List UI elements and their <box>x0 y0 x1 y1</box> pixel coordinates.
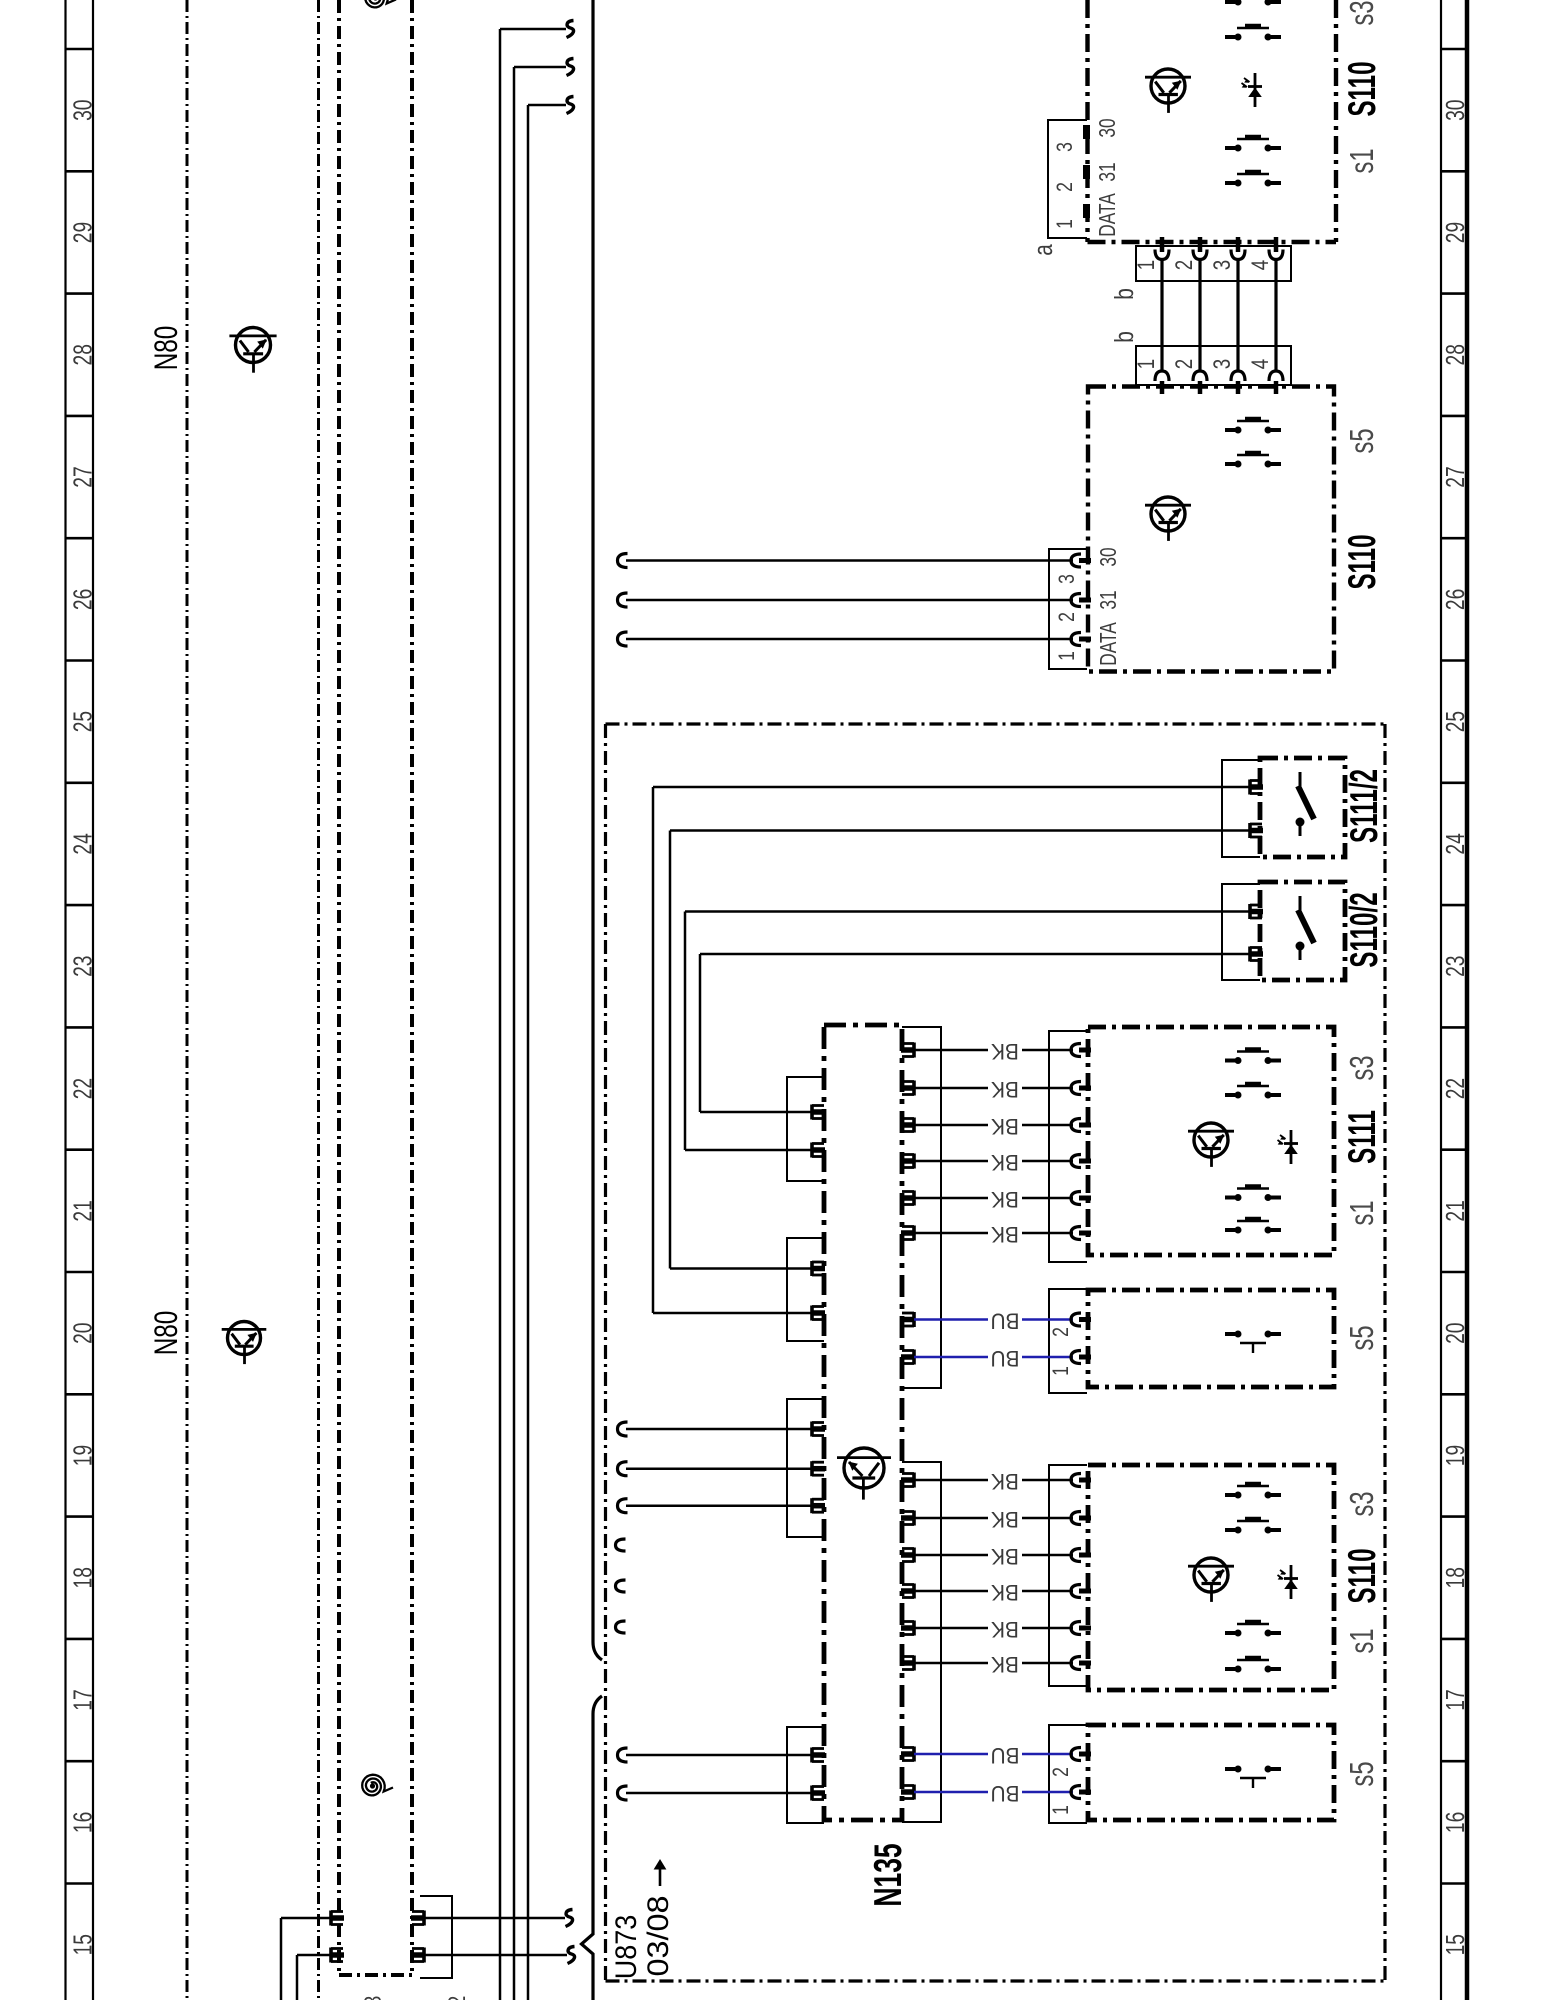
svg-text:30: 30 <box>68 100 98 121</box>
svg-text:S110: S110 <box>1340 61 1383 116</box>
svg-text:22: 22 <box>68 1078 98 1099</box>
svg-text:18: 18 <box>68 1567 98 1588</box>
svg-text:29: 29 <box>68 222 98 243</box>
svg-text:16: 16 <box>68 1812 98 1833</box>
svg-text:S111/2: S111/2 <box>1342 769 1385 843</box>
svg-text:20: 20 <box>68 1323 98 1344</box>
svg-text:3: 3 <box>1209 359 1236 369</box>
svg-text:s1: s1 <box>1344 1628 1381 1653</box>
svg-text:BU: BU <box>990 1781 1019 1806</box>
svg-text:31: 31 <box>1097 590 1122 609</box>
svg-text:2: 2 <box>1049 1327 1073 1337</box>
svg-text:23: 23 <box>68 956 98 977</box>
svg-text:BK: BK <box>990 1507 1019 1532</box>
svg-text:29: 29 <box>1440 222 1470 243</box>
svg-text:BK: BK <box>990 1544 1019 1569</box>
svg-text:1: 1 <box>1053 219 1077 229</box>
svg-text:21: 21 <box>1440 1200 1470 1221</box>
svg-text:15: 15 <box>1440 1934 1470 1955</box>
svg-text:b: b <box>1110 331 1139 343</box>
svg-text:25: 25 <box>1440 711 1470 732</box>
svg-text:22: 22 <box>1440 1078 1470 1099</box>
svg-text:BK: BK <box>990 1617 1019 1642</box>
svg-text:BU: BU <box>990 1743 1019 1768</box>
svg-text:15: 15 <box>68 1934 98 1955</box>
svg-text:20: 20 <box>1440 1323 1470 1344</box>
svg-text:BK: BK <box>990 1150 1019 1175</box>
svg-text:1: 1 <box>1133 260 1160 270</box>
svg-text:2: 2 <box>1053 182 1077 192</box>
svg-text:BK: BK <box>990 1222 1019 1247</box>
svg-text:1: 1 <box>1049 1805 1073 1815</box>
svg-text:19: 19 <box>1440 1445 1470 1466</box>
svg-text:s3: s3 <box>1344 0 1381 25</box>
svg-text:s1: s1 <box>1344 148 1381 173</box>
svg-text:17: 17 <box>68 1689 98 1710</box>
svg-text:18: 18 <box>1440 1567 1470 1588</box>
svg-text:s3: s3 <box>1344 1491 1381 1516</box>
svg-text:30: 30 <box>1096 118 1121 137</box>
svg-text:1: 1 <box>1049 1366 1073 1376</box>
svg-text:S110/2: S110/2 <box>1342 892 1385 967</box>
svg-text:BK: BK <box>990 1580 1019 1605</box>
svg-text:3: 3 <box>1055 574 1079 584</box>
svg-text:BU: BU <box>990 1309 1019 1334</box>
svg-text:27: 27 <box>68 466 98 487</box>
svg-text:s5: s5 <box>1344 1325 1381 1350</box>
svg-text:s5: s5 <box>1344 1761 1381 1786</box>
svg-text:BK: BK <box>990 1469 1019 1494</box>
svg-text:3: 3 <box>1209 260 1236 270</box>
svg-text:S110: S110 <box>1340 1548 1383 1603</box>
svg-text:2: 2 <box>1055 612 1079 622</box>
svg-text:21: 21 <box>68 1200 98 1221</box>
svg-text:N135: N135 <box>867 1843 910 1906</box>
svg-text:17: 17 <box>1440 1689 1470 1710</box>
svg-text:BK: BK <box>990 1077 1019 1102</box>
svg-text:2: 2 <box>443 1996 471 2000</box>
svg-text:S111: S111 <box>1340 1110 1383 1164</box>
svg-text:26: 26 <box>1440 589 1470 610</box>
svg-text:s3: s3 <box>1344 1055 1381 1080</box>
svg-text:a: a <box>1029 243 1058 255</box>
svg-text:4: 4 <box>1247 260 1274 270</box>
svg-text:s5: s5 <box>1344 428 1381 453</box>
svg-text:19: 19 <box>68 1445 98 1466</box>
svg-text:N80: N80 <box>149 326 185 371</box>
svg-text:BK: BK <box>990 1039 1019 1064</box>
svg-text:2: 2 <box>1049 1767 1073 1777</box>
svg-text:S110: S110 <box>1340 534 1383 589</box>
svg-text:BK: BK <box>990 1114 1019 1139</box>
svg-text:30: 30 <box>1440 100 1470 121</box>
svg-text:3: 3 <box>1053 142 1077 152</box>
svg-text:1: 1 <box>1133 359 1160 369</box>
svg-text:BK: BK <box>990 1187 1019 1212</box>
svg-text:DATA: DATA <box>1096 193 1121 237</box>
svg-text:28: 28 <box>68 344 98 365</box>
svg-text:16: 16 <box>1440 1812 1470 1833</box>
svg-text:31: 31 <box>1096 162 1121 181</box>
svg-text:03/08: 03/08 <box>641 1895 675 1976</box>
svg-text:23: 23 <box>1440 956 1470 977</box>
svg-text:BU: BU <box>990 1346 1019 1371</box>
svg-text:3: 3 <box>359 1996 387 2000</box>
svg-text:DATA: DATA <box>1097 622 1122 666</box>
svg-text:2: 2 <box>1171 260 1198 270</box>
svg-text:BK: BK <box>990 1652 1019 1677</box>
svg-text:25: 25 <box>68 711 98 732</box>
svg-text:28: 28 <box>1440 344 1470 365</box>
svg-text:4: 4 <box>1247 359 1274 369</box>
svg-text:2: 2 <box>1171 359 1198 369</box>
svg-text:24: 24 <box>68 833 98 855</box>
svg-text:s1: s1 <box>1344 1200 1381 1225</box>
svg-text:26: 26 <box>68 589 98 610</box>
svg-text:1: 1 <box>1055 651 1079 661</box>
svg-text:N80: N80 <box>149 1311 185 1356</box>
svg-text:b: b <box>1110 288 1139 300</box>
svg-text:27: 27 <box>1440 466 1470 487</box>
svg-text:U873: U873 <box>610 1915 644 1979</box>
svg-text:24: 24 <box>1440 833 1470 855</box>
svg-text:30: 30 <box>1097 547 1122 566</box>
